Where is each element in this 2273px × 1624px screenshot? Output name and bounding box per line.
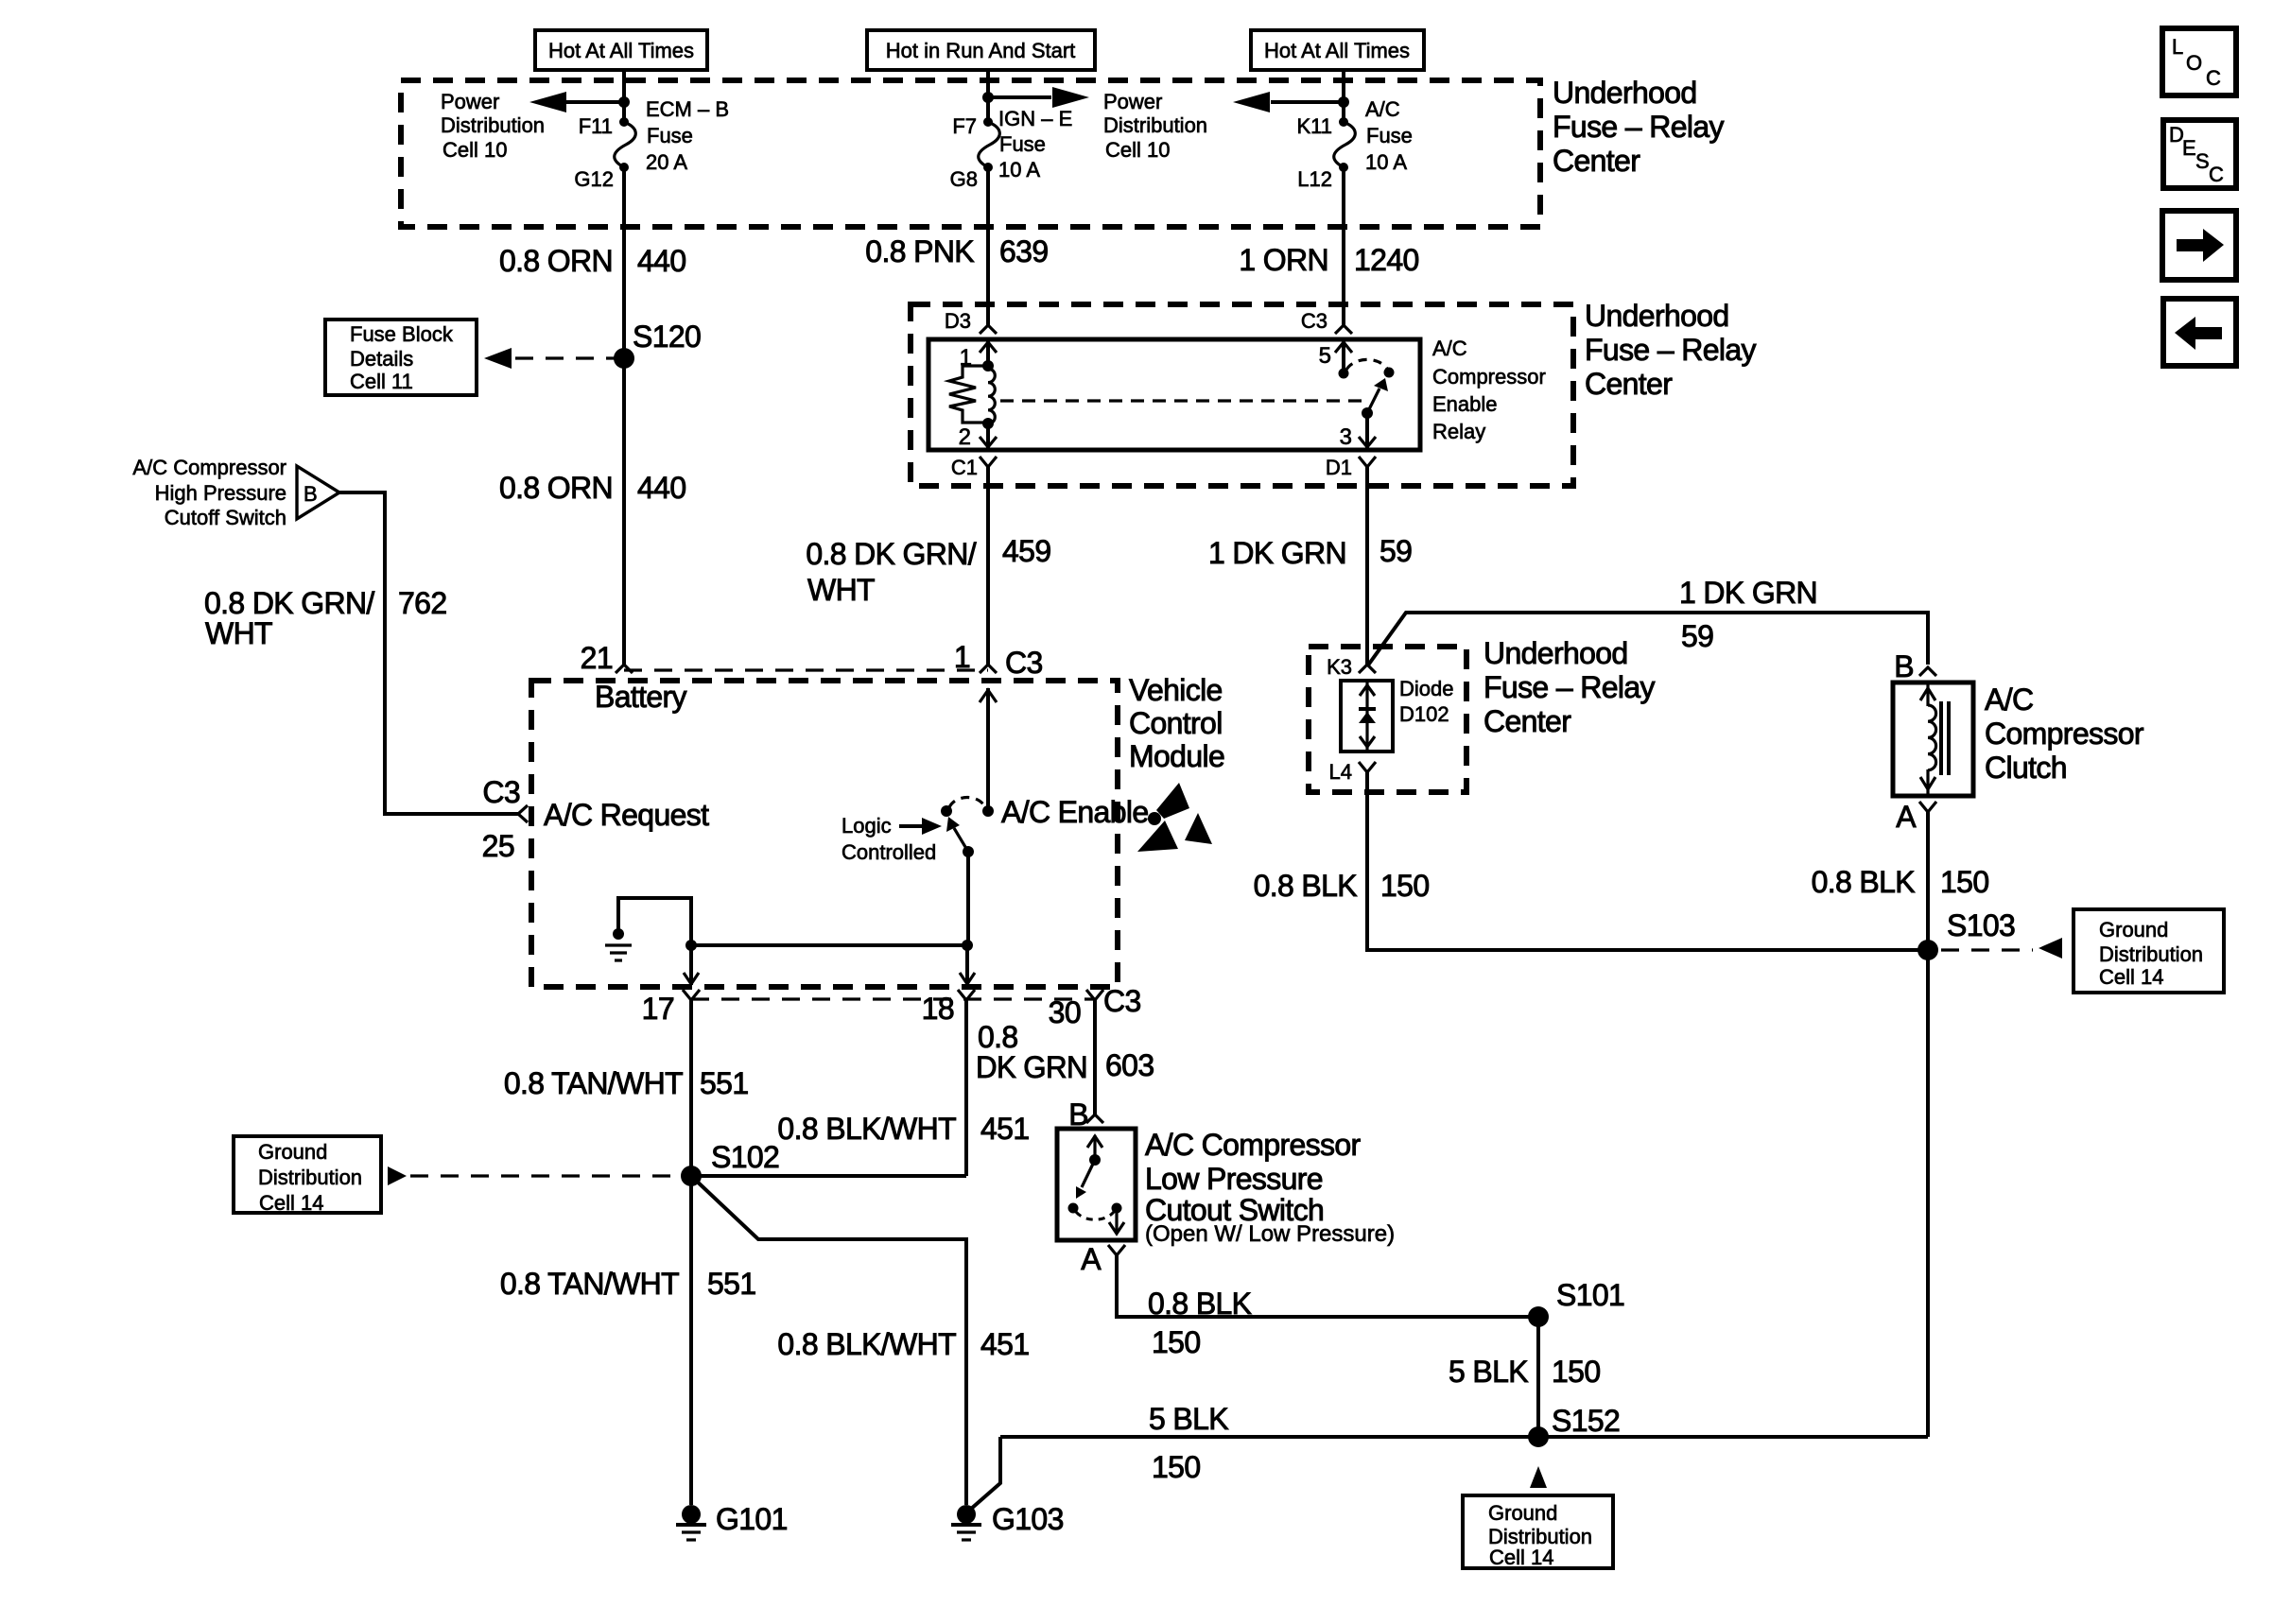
relay logic dashed line [1000, 399, 1364, 402]
svg-text:Fuse – Relay: Fuse – Relay [1553, 110, 1724, 144]
relay pin 5 arrow [1319, 341, 1352, 373]
label 0.8 BLK 150 (clutch side) [1812, 865, 1989, 899]
wire 0.8 ORN 440 from G12 to VCM pin 21 [622, 167, 626, 665]
svg-text:S152: S152 [1552, 1404, 1620, 1438]
splice S152 [1528, 1404, 1620, 1447]
wire 1 DK GRN 59 branch to clutch B [1367, 613, 1928, 666]
svg-text:440: 440 [637, 244, 685, 278]
diode D102 box [1341, 681, 1393, 752]
svg-text:5 BLK: 5 BLK [1449, 1355, 1528, 1389]
relay switch contacts [1339, 359, 1395, 378]
svg-text:A/C Compressor: A/C Compressor [1145, 1128, 1362, 1162]
label 1 DK GRN 59 (vertical run) [1208, 534, 1412, 570]
svg-text:603: 603 [1105, 1048, 1154, 1082]
label ECM-B Fuse 20 A [646, 97, 729, 174]
svg-text:150: 150 [1552, 1355, 1600, 1389]
wire to pin 18 with down arrow [960, 945, 975, 985]
internal ground symbol (VCM) [605, 928, 632, 960]
svg-text:Details: Details [350, 347, 413, 371]
connector D3 (relay) [945, 309, 997, 334]
svg-text:10 A: 10 A [998, 158, 1040, 181]
svg-text:Hot At All Times: Hot At All Times [548, 39, 694, 62]
svg-text:K3: K3 [1327, 655, 1352, 679]
svg-text:A/C: A/C [1432, 337, 1467, 360]
svg-text:B: B [1894, 649, 1914, 683]
wire to pin 17 with down arrow [684, 945, 699, 985]
svg-text:459: 459 [1002, 534, 1050, 568]
label 0.8 TAN/WHT 551 (lower) [500, 1267, 756, 1301]
pin G12 [574, 167, 614, 191]
svg-text:A: A [1081, 1242, 1102, 1276]
label A/C Request [544, 798, 709, 832]
wire 5 BLK from S103 down to S152 line [1926, 950, 1930, 1437]
wire A/C fuse feed from Hot At All Times [1342, 70, 1345, 122]
svg-text:Cell 14: Cell 14 [2099, 965, 2163, 989]
svg-text:K11: K11 [1296, 114, 1332, 138]
label 0.8 ORN 440 (upper) [499, 244, 686, 278]
wire 0.8 BLK 150 clutch A to S103 [1926, 812, 1930, 950]
wire IGN-E feed from Hot in Run And Start [986, 70, 990, 122]
connector B (clutch) [1894, 649, 1936, 683]
svg-text:0.8 BLK/WHT: 0.8 BLK/WHT [777, 1112, 956, 1146]
svg-text:0.8: 0.8 [978, 1020, 1018, 1054]
svg-text:21: 21 [581, 641, 613, 675]
svg-text:0.8 BLK: 0.8 BLK [1812, 865, 1916, 899]
relay coil node bottom [982, 418, 994, 429]
box Ground Distribution Cell 14 (bottom) [1463, 1495, 1613, 1569]
splice S102 [681, 1140, 779, 1186]
svg-text:A/C: A/C [1985, 682, 2033, 717]
svg-text:S101: S101 [1556, 1278, 1624, 1312]
svg-text:Cell 14: Cell 14 [1489, 1546, 1553, 1569]
wire ECM-B feed from Hot At All Times [622, 70, 626, 122]
A/C compressor clutch box [1893, 682, 1973, 796]
label 0.8 ORN 440 (lower) [499, 471, 686, 505]
splice S101 [1528, 1278, 1624, 1327]
underhood fuse-relay center dashed box (relay) [911, 304, 1573, 486]
wire ground jog to pin 17 node [618, 898, 691, 945]
label 0.8 BLK 150 (diode side) [1254, 869, 1430, 903]
relay pin 2 arrow [959, 423, 997, 450]
label Battery [595, 680, 687, 714]
A/C enable switch contacts [941, 798, 994, 818]
svg-text:Underhood: Underhood [1553, 76, 1697, 110]
svg-text:G12: G12 [574, 167, 614, 191]
connector L4 (diode out) [1329, 760, 1376, 784]
svg-text:150: 150 [1380, 869, 1429, 903]
svg-text:762: 762 [398, 586, 446, 620]
relay pin 1 arrow [960, 341, 997, 371]
label A/C Enable [1001, 795, 1148, 829]
connector A (clutch) [1896, 800, 1936, 834]
icon box right-arrow [2162, 211, 2236, 280]
svg-text:440: 440 [637, 471, 685, 505]
svg-text:D102: D102 [1399, 702, 1449, 726]
svg-text:C: C [2206, 66, 2221, 90]
label A/C Compressor High Pressure Cutoff Switch [132, 456, 286, 529]
svg-text:DK GRN: DK GRN [976, 1050, 1087, 1084]
connector line C3 at VCM top [624, 668, 988, 671]
svg-text:A/C Request: A/C Request [544, 798, 709, 832]
svg-text:Fuse – Relay: Fuse – Relay [1585, 333, 1756, 367]
connector triangle B (high pressure cutoff switch) [297, 466, 339, 519]
svg-text:17: 17 [642, 992, 674, 1026]
underhood fuse-relay center dashed box (diode) [1309, 647, 1466, 792]
svg-text:Hot in Run And Start: Hot in Run And Start [886, 39, 1076, 62]
svg-text:E: E [2182, 136, 2196, 160]
connector pin 18 [922, 990, 975, 1026]
header box Hot in Run And Start [867, 30, 1095, 70]
connector K3 (diode in) [1327, 655, 1376, 679]
label 0.8 PNK 639 [865, 234, 1048, 268]
svg-text:150: 150 [1152, 1325, 1200, 1359]
label 0.8 BLK/WHT 451 (upper) [777, 1112, 1029, 1146]
svg-text:59: 59 [1379, 534, 1412, 568]
svg-text:10 A: 10 A [1365, 150, 1407, 174]
wire 1 DK GRN 59 from D1 to K3 [1365, 467, 1369, 665]
svg-text:S: S [2195, 149, 2210, 173]
svg-text:0.8 BLK/WHT: 0.8 BLK/WHT [777, 1327, 956, 1361]
svg-text:Distribution: Distribution [258, 1166, 362, 1189]
wire 0.8 BLK 150 from L4 to S103 [1367, 772, 1928, 950]
wire 5 BLK 150 S101 to S152 [1536, 1317, 1540, 1437]
svg-text:0.8 ORN: 0.8 ORN [499, 244, 613, 278]
svg-text:F7: F7 [952, 114, 977, 138]
svg-text:C3: C3 [1301, 309, 1327, 333]
wire 0.8 TAN/WHT 551 pin 17 to S102 to G101 [689, 1000, 693, 1505]
relay solid box [928, 339, 1420, 450]
label 0.8 TAN/WHT 551 (upper) [504, 1066, 749, 1100]
svg-text:Center: Center [1553, 144, 1640, 178]
svg-text:Power: Power [441, 90, 499, 113]
svg-text:D1: D1 [1326, 456, 1352, 479]
svg-text:Controlled: Controlled [842, 840, 936, 864]
svg-text:S120: S120 [633, 320, 701, 354]
svg-text:Cell 10: Cell 10 [442, 138, 507, 162]
svg-text:Distribution: Distribution [441, 113, 545, 137]
svg-text:C1: C1 [951, 456, 978, 479]
vehicle control module dashed box [531, 681, 1118, 987]
label 5 BLK 150 (S101-S152) [1449, 1355, 1600, 1389]
svg-text:L4: L4 [1329, 760, 1352, 784]
connector C3 pin 25 (A/C Request into VCM) [482, 775, 528, 863]
svg-text:639: 639 [999, 234, 1048, 268]
switch internals [1068, 1135, 1125, 1234]
wire 0.8 DK GRN/WHT 459 from C1 to VCM pin 1 [986, 467, 990, 665]
svg-text:Clutch: Clutch [1985, 751, 2067, 785]
pin F7 [952, 114, 977, 138]
svg-text:3: 3 [1340, 424, 1352, 450]
svg-text:18: 18 [922, 992, 954, 1026]
svg-text:High Pressure: High Pressure [155, 481, 286, 505]
A/C enable switch arm [946, 817, 974, 857]
wire 5 BLK to G103 [970, 1437, 1000, 1510]
box Fuse Block Details Cell 11 [325, 320, 477, 395]
fuse ECM-B 20A F11/G12 [615, 117, 636, 172]
wire 0.8 BLK/WHT 451 pin 18 to S102 [691, 1000, 966, 1176]
svg-text:25: 25 [482, 829, 514, 863]
svg-text:0.8 BLK: 0.8 BLK [1254, 869, 1358, 903]
label 5 BLK 150 (horizontal run) [1149, 1402, 1228, 1484]
dashed arrow S120 to Fuse Block Details [484, 348, 615, 369]
arrow to power distribution (left) [529, 92, 630, 112]
pin L12 [1297, 167, 1332, 191]
svg-text:Cell 10: Cell 10 [1105, 138, 1170, 162]
arrow to power distribution (middle) [982, 87, 1089, 108]
label 1 ORN 1240 [1239, 243, 1418, 277]
svg-text:5: 5 [1319, 343, 1331, 369]
svg-text:WHT: WHT [205, 616, 272, 650]
splice S103 [1917, 908, 2015, 960]
svg-text:Logic: Logic [842, 814, 892, 838]
label Diode D102 [1399, 677, 1453, 726]
svg-text:S103: S103 [1947, 908, 2015, 942]
svg-text:L: L [2172, 35, 2183, 59]
svg-text:(Open W/ Low Pressure): (Open W/ Low Pressure) [1145, 1221, 1395, 1247]
svg-text:150: 150 [1152, 1450, 1200, 1484]
wire 5 BLK 150 S152 horizontal run [1000, 1435, 1928, 1439]
label A/C Compressor Enable Relay [1432, 337, 1546, 443]
label A/C Fuse 10 A [1365, 97, 1413, 174]
svg-text:Center: Center [1484, 704, 1571, 738]
wire 0.8 BLK/WHT 451 S102 to G103 [691, 1176, 966, 1505]
header box Hot At All Times (left) [535, 30, 707, 70]
svg-text:Low Pressure: Low Pressure [1145, 1162, 1323, 1196]
label Power Distribution Cell 10 (left) [441, 90, 545, 162]
svg-text:L12: L12 [1297, 167, 1332, 191]
label Underhood Fuse-Relay Center (top) [1553, 76, 1724, 178]
fuse A/C 10A K11/L12 [1334, 117, 1356, 172]
svg-text:G103: G103 [992, 1502, 1064, 1536]
box Ground Distribution Cell 14 (left) [234, 1136, 381, 1215]
svg-text:1 ORN: 1 ORN [1239, 243, 1328, 277]
wire 0.8 BLK 150 switch A to S101 [1117, 1255, 1538, 1317]
svg-text:A/C Compressor: A/C Compressor [132, 456, 286, 479]
svg-text:C: C [2209, 163, 2224, 186]
connector pin 30 C3 [1049, 984, 1141, 1029]
internal bus wire [685, 940, 973, 951]
svg-text:0.8 DK GRN/: 0.8 DK GRN/ [204, 586, 374, 620]
svg-text:0.8 ORN: 0.8 ORN [499, 471, 613, 505]
low pressure cutout switch box [1057, 1129, 1136, 1240]
connector line C3 at VCM bottom [691, 997, 1095, 1000]
svg-text:551: 551 [700, 1066, 748, 1100]
diode D102 symbol [1359, 682, 1376, 750]
svg-text:Battery: Battery [595, 680, 687, 714]
label Underhood Fuse-Relay Center (diode) [1484, 636, 1655, 738]
svg-text:0.8 TAN/WHT: 0.8 TAN/WHT [500, 1267, 679, 1301]
label 0.8 BLK/WHT 451 (lower) [777, 1327, 1029, 1361]
svg-text:Ground: Ground [258, 1140, 327, 1164]
svg-text:Cell 11: Cell 11 [350, 370, 413, 393]
connector C1 (relay out) [951, 456, 997, 479]
svg-text:D3: D3 [945, 309, 971, 333]
svg-text:Control: Control [1129, 706, 1223, 740]
relay coil branch [988, 369, 995, 423]
svg-text:Enable: Enable [1432, 392, 1498, 416]
svg-text:Cell 14: Cell 14 [259, 1191, 323, 1215]
svg-text:Ground: Ground [2099, 918, 2168, 942]
wire 0.8 PNK 639 from G8 to relay D3 [986, 167, 990, 325]
label A/C Compressor Clutch [1985, 682, 2144, 785]
label Vehicle Control Module [1129, 673, 1224, 773]
label A/C Compressor Low Pressure Cutout Switch [1145, 1128, 1395, 1247]
svg-text:Fuse – Relay: Fuse – Relay [1484, 670, 1655, 704]
A/C enable wire with up arrow [980, 688, 997, 811]
svg-text:Fuse: Fuse [647, 124, 693, 147]
connector C3 (relay) [1301, 309, 1352, 334]
wire 0.8 DK GRN 603 pin 30 to switch B [1093, 1000, 1097, 1114]
svg-text:1240: 1240 [1354, 243, 1419, 277]
dashed arrow ground distribution to S102 [388, 1166, 679, 1185]
svg-text:20 A: 20 A [646, 150, 687, 174]
svg-text:30: 30 [1049, 995, 1081, 1029]
connector B (low pressure switch) [1068, 1097, 1103, 1132]
svg-text:C3: C3 [482, 775, 520, 809]
label 1 DK GRN 59 (branch) [1679, 576, 1817, 653]
svg-text:IGN – E: IGN – E [998, 107, 1072, 130]
wire 1 ORN 1240 from L12 to relay C3 [1342, 167, 1345, 325]
svg-text:S102: S102 [711, 1140, 779, 1174]
svg-text:Power: Power [1103, 90, 1162, 113]
svg-text:59: 59 [1681, 619, 1713, 653]
connector pin 17 [642, 990, 700, 1026]
svg-text:Distribution: Distribution [2099, 942, 2203, 966]
pin K11 [1296, 114, 1332, 138]
svg-text:0.8 TAN/WHT: 0.8 TAN/WHT [504, 1066, 683, 1100]
header box Hot At All Times (right) [1251, 30, 1424, 70]
dashed arrow S103 to ground distribution [1941, 938, 2062, 959]
svg-text:O: O [2186, 51, 2202, 75]
box Ground Distribution Cell 14 (right) [2073, 909, 2224, 993]
underhood fuse-relay center dashed box (top) [401, 80, 1540, 227]
connector A (low pressure switch) [1081, 1242, 1125, 1276]
svg-text:Distribution: Distribution [1103, 113, 1207, 137]
label Power Distribution Cell 10 (middle) [1103, 90, 1207, 162]
label 0.8 DK GRN/ WHT 459 [806, 534, 1050, 607]
svg-text:Hot At All Times: Hot At All Times [1264, 39, 1410, 62]
svg-text:0.8 PNK: 0.8 PNK [865, 234, 974, 268]
svg-text:0.8 BLK: 0.8 BLK [1148, 1287, 1252, 1321]
label 0.8 BLK 150 (switch to S101) [1148, 1287, 1252, 1359]
svg-text:Ground: Ground [1488, 1501, 1557, 1525]
svg-text:Fuse: Fuse [999, 132, 1046, 156]
svg-text:Fuse: Fuse [1366, 124, 1413, 147]
svg-text:A: A [1896, 800, 1917, 834]
label IGN-E Fuse 10 A [998, 107, 1072, 181]
svg-text:C3: C3 [1005, 646, 1043, 680]
svg-text:1: 1 [954, 640, 970, 674]
svg-text:Vehicle: Vehicle [1129, 673, 1223, 707]
connector pin 21 (VCM battery) [581, 641, 633, 675]
svg-text:C3: C3 [1103, 984, 1141, 1018]
connector pin 1 C3 (VCM A/C enable) [954, 640, 1043, 680]
svg-text:150: 150 [1940, 865, 1988, 899]
relay coil node top [982, 360, 994, 371]
svg-text:Module: Module [1129, 739, 1224, 773]
relay resistor branch [949, 366, 988, 423]
svg-text:G8: G8 [950, 167, 978, 191]
svg-text:Diode: Diode [1399, 677, 1453, 700]
arrow S152 to ground distribution (bottom) [1530, 1466, 1547, 1488]
ground G103 [951, 1502, 1064, 1540]
svg-text:1 DK GRN: 1 DK GRN [1679, 576, 1817, 610]
label Logic Controlled with arrow [842, 814, 942, 864]
pin G8 [950, 167, 978, 191]
label 0.8 DK GRN 603 [976, 1020, 1154, 1084]
svg-text:5 BLK: 5 BLK [1149, 1402, 1228, 1436]
icon box LOC [2162, 28, 2236, 95]
icon box DESC [2163, 120, 2236, 188]
svg-text:Fuse Block: Fuse Block [350, 322, 454, 346]
svg-text:451: 451 [980, 1327, 1029, 1361]
svg-text:WHT: WHT [807, 573, 875, 607]
svg-text:B: B [304, 482, 318, 506]
relay switch arm [1362, 378, 1388, 419]
wire 0.8 DK GRN/WHT 762 [339, 492, 518, 814]
wire switch arm to internal bus [966, 852, 970, 945]
arrow to power distribution (right) [1233, 92, 1349, 112]
pin F11 [579, 114, 613, 138]
svg-text:Underhood: Underhood [1585, 299, 1729, 333]
svg-text:Relay: Relay [1432, 420, 1485, 443]
svg-text:Underhood: Underhood [1484, 636, 1628, 670]
ESD sensitivity symbol [1137, 783, 1212, 852]
svg-text:Cutoff Switch: Cutoff Switch [165, 506, 286, 529]
fuse IGN-E 10A F7/G8 [979, 117, 1000, 172]
svg-text:2: 2 [959, 424, 971, 450]
svg-text:A/C: A/C [1365, 97, 1400, 121]
svg-text:Center: Center [1585, 367, 1673, 401]
svg-text:0.8 DK GRN/: 0.8 DK GRN/ [806, 537, 976, 571]
relay pin 3 arrow [1340, 413, 1376, 450]
svg-text:451: 451 [980, 1112, 1029, 1146]
svg-text:Compressor: Compressor [1432, 365, 1546, 389]
ground G101 [676, 1502, 788, 1540]
svg-text:Compressor: Compressor [1985, 717, 2144, 751]
svg-text:F11: F11 [579, 114, 613, 138]
clutch coil symbol [1920, 684, 1949, 794]
svg-text:1 DK GRN: 1 DK GRN [1208, 536, 1346, 570]
svg-text:ECM – B: ECM – B [646, 97, 729, 121]
splice S120 [614, 320, 701, 369]
icon box left-arrow [2163, 299, 2236, 366]
label Underhood Fuse-Relay Center (relay) [1585, 299, 1756, 401]
svg-text:A/C Enable: A/C Enable [1001, 795, 1148, 829]
label 0.8 DK GRN/ WHT 762 [204, 586, 446, 650]
svg-text:551: 551 [707, 1267, 755, 1301]
connector D1 (relay out) [1326, 456, 1376, 479]
svg-text:G101: G101 [716, 1502, 788, 1536]
